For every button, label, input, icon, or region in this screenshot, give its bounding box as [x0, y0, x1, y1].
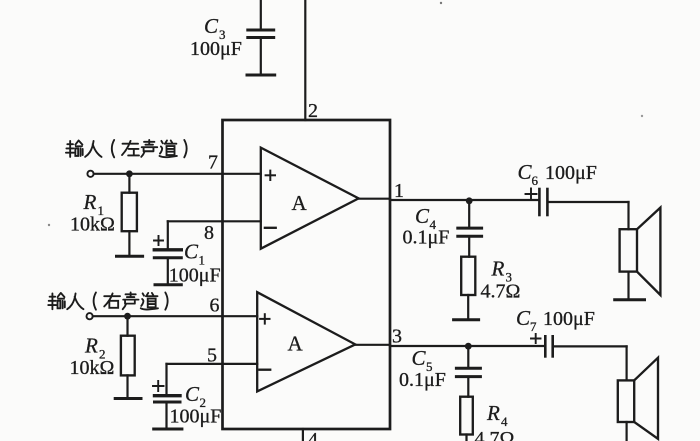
speaker LS2: [618, 346, 658, 441]
svg-text:8: 8: [204, 222, 214, 244]
svg-text:4: 4: [501, 414, 508, 429]
wire pin7: [94, 173, 261, 175]
ground C2: [154, 428, 182, 431]
label R2: [70, 334, 115, 380]
resistor R1: [122, 174, 137, 256]
svg-text:0.1μF: 0.1μF: [403, 227, 450, 249]
resistor R2: [121, 316, 135, 398]
svg-text:10kΩ: 10kΩ: [70, 357, 115, 379]
scan speck 1: [440, 2, 442, 4]
svg-text:6: 6: [210, 295, 220, 317]
wire output pin1: [359, 199, 539, 200]
capacitor C5: [456, 346, 480, 397]
ground C1: [155, 283, 181, 286]
node junction pin3: [465, 343, 472, 350]
svg-text:1: 1: [394, 180, 404, 202]
wire pin6: [93, 315, 257, 317]
capacitor C3: [248, 0, 274, 75]
wire pin8: [168, 220, 261, 222]
pin label 7: [208, 152, 218, 174]
ground R1: [117, 255, 143, 258]
node junction left input: [126, 170, 133, 177]
wire pin4: [302, 429, 304, 441]
label R1: [70, 190, 115, 236]
op-amp U1B bottom: [257, 292, 355, 391]
IC box U1: [223, 120, 391, 429]
pin label 8: [204, 222, 214, 244]
svg-text:4.7Ω: 4.7Ω: [475, 428, 515, 441]
svg-text:4: 4: [308, 429, 318, 441]
svg-text:C: C: [516, 306, 531, 330]
svg-text:R: R: [491, 257, 505, 281]
capacitor C4: [458, 201, 482, 257]
label input right channel: [48, 292, 167, 309]
wire pin2 vertical: [304, 0, 306, 120]
svg-text:6: 6: [532, 173, 539, 188]
svg-text:3: 3: [392, 326, 402, 348]
ground speaker LS1: [615, 298, 645, 301]
svg-text:2: 2: [308, 100, 318, 122]
svg-text:R: R: [486, 401, 500, 425]
svg-text:100μF: 100μF: [543, 308, 595, 330]
capacitor C7: [531, 334, 627, 356]
label R4: [475, 401, 515, 441]
wire output pin3: [355, 345, 545, 346]
node junction pin1: [466, 197, 473, 204]
svg-text:7: 7: [208, 152, 218, 174]
svg-text:A: A: [292, 191, 308, 215]
svg-text:C: C: [184, 240, 199, 264]
scan speck 3: [48, 224, 50, 226]
pin label 6: [210, 295, 220, 317]
svg-text:10kΩ: 10kΩ: [70, 214, 115, 236]
resistor R4: [460, 397, 473, 441]
svg-text:C: C: [415, 204, 430, 228]
label C3: [190, 14, 242, 60]
pin label 5: [207, 345, 217, 367]
label C5: [399, 346, 446, 391]
label C6: [518, 160, 597, 188]
input terminal left: [87, 171, 93, 177]
capacitor C6: [526, 189, 629, 216]
svg-text:100μF: 100μF: [545, 162, 597, 184]
pin label 4: [308, 429, 318, 441]
resistor R3: [461, 257, 475, 320]
ground R2: [115, 397, 141, 400]
pin label 2: [308, 100, 318, 122]
label input left channel: [66, 140, 187, 157]
label R3: [481, 257, 521, 303]
svg-text:R: R: [83, 190, 97, 214]
label C1: [169, 240, 221, 287]
input terminal right: [87, 313, 93, 319]
svg-text:C: C: [412, 346, 427, 370]
svg-text:100μF: 100μF: [169, 265, 221, 287]
svg-text:4.7Ω: 4.7Ω: [481, 281, 521, 303]
capacitor C1: [154, 221, 181, 284]
capacitor C2: [153, 364, 180, 429]
label C4: [403, 204, 450, 249]
label C7: [516, 306, 595, 334]
svg-text:C: C: [518, 160, 533, 184]
svg-text:C: C: [185, 382, 200, 406]
svg-text:100μF: 100μF: [190, 38, 242, 60]
wire pin5: [167, 363, 258, 365]
svg-text:7: 7: [530, 319, 537, 334]
ground R3: [454, 318, 479, 321]
svg-text:0.1μF: 0.1μF: [399, 369, 446, 391]
svg-text:5: 5: [207, 345, 217, 367]
pin label 3: [392, 326, 402, 348]
speaker LS1: [620, 202, 661, 300]
svg-text:R: R: [84, 334, 98, 358]
node junction right input: [124, 313, 131, 320]
label C2: [170, 382, 222, 428]
svg-text:A: A: [288, 332, 304, 356]
pin label 1: [394, 180, 404, 202]
svg-text:C: C: [204, 14, 219, 38]
ground C3: [247, 74, 275, 77]
scan speck 2: [641, 115, 643, 117]
op-amp U1A top: [261, 148, 359, 249]
svg-text:100μF: 100μF: [170, 406, 222, 428]
